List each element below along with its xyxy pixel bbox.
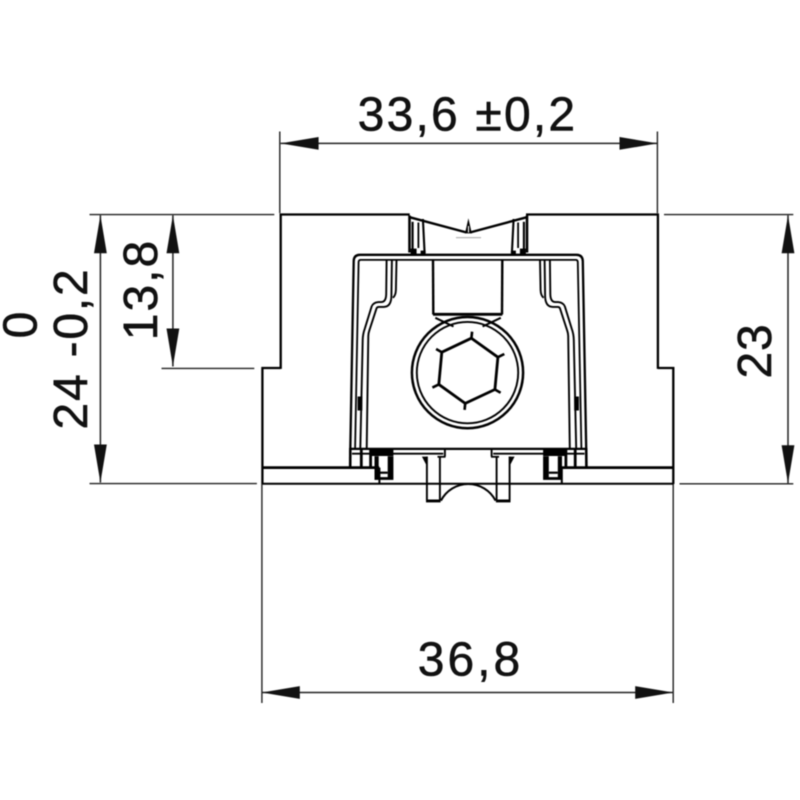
- dimension 24 line: [90, 215, 275, 484]
- svg-text:24 -0,2: 24 -0,2: [45, 267, 98, 429]
- right foot cluster: [543, 449, 575, 480]
- right slot S-curve: [540, 260, 579, 449]
- screw head outer circle: [412, 317, 523, 428]
- housing base top edge right: [562, 468, 674, 484]
- svg-text:33,6 ±0,2: 33,6 ±0,2: [358, 89, 578, 142]
- housing right upper edge: [657, 214, 659, 369]
- housing V-cut right edge: [526, 216, 529, 253]
- dimension 33,6 ±0,2 text: [358, 89, 578, 142]
- dimension 23 line: [664, 215, 794, 484]
- clamp insert inner top line: [355, 260, 581, 449]
- dimension 36,8 text: [418, 634, 523, 687]
- right leg: [491, 450, 515, 502]
- left spring clip: [411, 219, 426, 254]
- housing right step: [658, 367, 674, 484]
- hidden edge under pip: [456, 237, 481, 239]
- V-notch right slope: [470, 217, 526, 232]
- center pip: [465, 218, 472, 233]
- housing top surface left: [280, 213, 410, 215]
- left foot cluster: [361, 449, 393, 480]
- hex socket: [432, 332, 504, 410]
- dimension 33,6 line: [280, 132, 658, 214]
- dimension 13,8 line: [162, 215, 255, 368]
- screw seat bridge: [433, 314, 502, 326]
- svg-text:0: 0: [0, 312, 48, 339]
- dimension 23 text: [729, 324, 782, 379]
- housing left upper edge: [280, 214, 282, 369]
- dimension 13,8 text: [115, 239, 168, 340]
- left leg: [422, 450, 446, 502]
- left slot S-curve: [358, 260, 397, 449]
- right spring clip: [511, 219, 526, 254]
- dimension 36,8 line: [262, 484, 673, 703]
- housing left step: [262, 367, 281, 484]
- svg-text:36,8: 36,8: [418, 634, 523, 687]
- saddle arch: [441, 484, 496, 501]
- svg-text:23: 23: [729, 324, 782, 379]
- clamp insert outer contour: [350, 255, 586, 467]
- clamp underside: [350, 449, 586, 454]
- housing top surface right: [526, 213, 659, 215]
- svg-text:13,8: 13,8: [115, 239, 168, 340]
- screw well left wall: [432, 260, 435, 315]
- housing base top edge left: [262, 468, 379, 484]
- V-notch left slope: [410, 217, 466, 232]
- screw head inner circle: [417, 322, 518, 423]
- housing base bottom edge: [262, 483, 673, 485]
- housing V-cut left edge: [408, 216, 411, 253]
- screw well right wall: [501, 260, 504, 315]
- dimension 24 -0,2 / 0 text: [0, 267, 98, 429]
